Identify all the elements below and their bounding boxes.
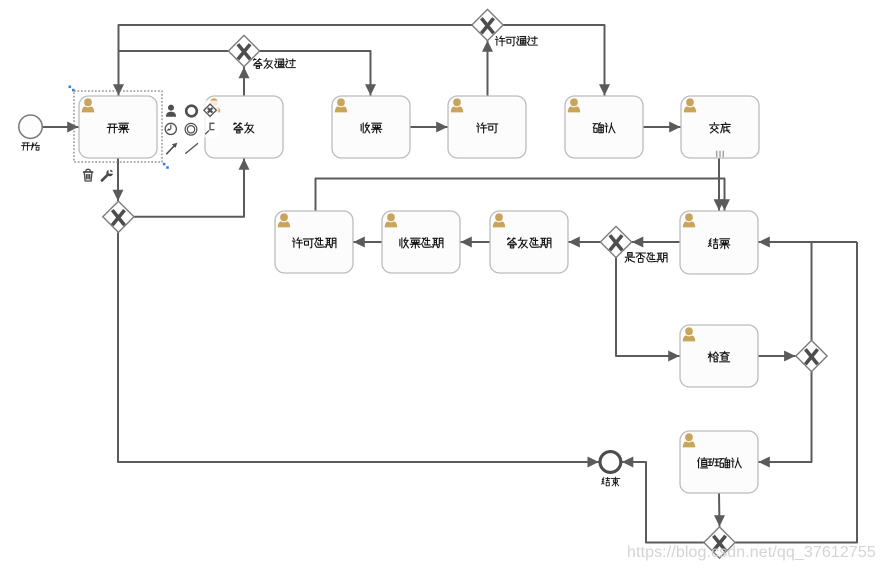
task 许可 <box>448 96 526 158</box>
context pad icon: user task <box>166 105 176 117</box>
wire flow G4->qianfayanqi <box>569 237 601 248</box>
task 签发延期 <box>490 211 568 273</box>
wire flow G1->kaipiao(back) <box>113 51 228 96</box>
end event 结束 <box>600 452 621 487</box>
wire flow G2->kaipiao(back) <box>119 25 473 51</box>
wire flow shoupiao->xuke <box>410 122 448 133</box>
task 许可延期 <box>275 211 353 273</box>
task 开票 <box>79 96 157 158</box>
wire flow ->jiepiao(right-in) <box>759 237 858 248</box>
label 签发通过 <box>254 59 296 69</box>
selection handle bottom-right <box>163 163 169 169</box>
wire flow xukeyanqi->jiepiao(loop) <box>316 179 731 212</box>
context pad icon: gateway diamond <box>204 104 216 116</box>
context pad icon: end event ring <box>186 106 197 117</box>
task 交底 <box>681 96 759 158</box>
wire flow qianfa->G1 <box>239 67 250 96</box>
context pad backdrop over 签发 <box>202 101 219 138</box>
task 收票 <box>332 96 410 158</box>
svg-text:https://blog.csdn.net/qq_37612: https://blog.csdn.net/qq_37612755 <box>627 544 876 561</box>
watermark <box>627 544 876 561</box>
wire flow G1->shoupiao <box>260 51 376 96</box>
context pad icon: connect arrow <box>166 143 177 155</box>
context pad icon: intermediate event double ring <box>185 123 197 135</box>
wire flow zhibanqueren->G6 <box>714 493 725 527</box>
context pad icon: wrench <box>102 169 113 180</box>
gateway G6 <box>704 527 735 558</box>
wire flow G6->end <box>622 457 704 543</box>
context pad icon: text annotation <box>205 123 214 134</box>
wire flow jiaodi->jiepiao <box>714 158 725 211</box>
label 是否延期 <box>625 253 667 263</box>
wire flow shoupiaoyanqi->xukeyanqi <box>354 237 383 248</box>
wire flow start->kaipiao <box>43 122 79 133</box>
task 值班确认 <box>680 431 758 493</box>
gateway G5 <box>796 340 827 371</box>
wire flow G5->zhibanqueren <box>759 372 812 468</box>
task 签发 <box>205 96 283 158</box>
task 确认 <box>565 96 643 158</box>
wire flow G5->jiepiao(up) <box>811 242 813 340</box>
selection outline of 开票 <box>74 91 162 162</box>
gateway G3(no label) <box>103 201 134 232</box>
task 收票延期 <box>382 211 460 273</box>
task 检查 <box>680 325 758 387</box>
wire flow xuke->G2 <box>482 41 493 97</box>
task 结票 <box>680 211 758 274</box>
context pad icon: trash <box>83 169 93 181</box>
wire flow G3->qianfa <box>134 159 249 217</box>
gateway 许可通过 <box>472 9 503 40</box>
wire flow G2->queren <box>503 25 610 96</box>
wire flow G4->jiancha <box>616 258 680 362</box>
label 许可通过 <box>495 36 537 46</box>
wire flow G3->end(long) <box>118 233 599 468</box>
selection handle top-left <box>69 86 75 92</box>
wire flow jiancha->G5 <box>758 351 795 362</box>
gateway 是否延期 <box>600 226 631 257</box>
start event 开始 <box>19 115 42 150</box>
wire flow G6->jiepiao(big loop) <box>735 242 857 543</box>
wire flow kaipiao->G3 <box>113 158 124 201</box>
wire flow qianfayanqi->shoupiaoyanqi <box>461 237 491 248</box>
gateway 签发通过 <box>228 35 259 66</box>
wire flow queren->jiaodi <box>643 122 681 133</box>
wire flow jiepiao->G4 <box>632 237 680 248</box>
context pad icon: slash <box>185 143 198 153</box>
context pad icon: timer event <box>165 123 176 134</box>
